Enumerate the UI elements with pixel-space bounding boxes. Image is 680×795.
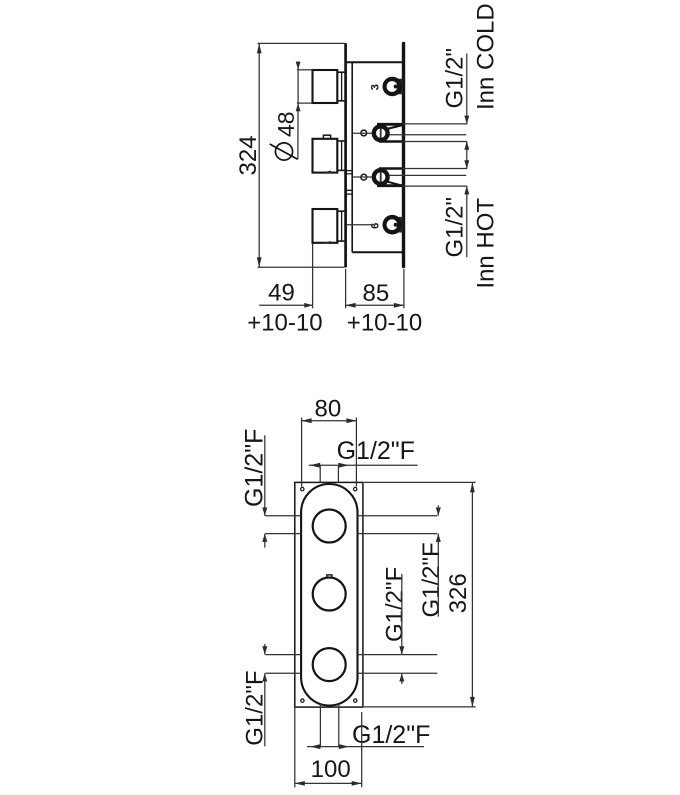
- tolerance text +10-10 left: [247, 309, 322, 336]
- dimension line 324: [257, 43, 262, 267]
- centerline P3: [353, 176, 372, 178]
- port P4 inlet bottom (hot): [383, 215, 403, 235]
- extension line bottom of 324: [258, 266, 345, 268]
- dimension Ø48: extension lines on knob K1: [297, 70, 313, 103]
- knob circle C3: [313, 648, 346, 681]
- label G1/2"F top left with leader: [241, 429, 269, 548]
- dimension text 100: [311, 756, 351, 783]
- svg-text:Inn HOT: Inn HOT: [473, 198, 500, 289]
- svg-text:326: 326: [445, 573, 472, 613]
- port P3 outlet (lower middle): [372, 168, 468, 186]
- dimension text 324: [235, 135, 262, 175]
- pipe stub top: [320, 465, 338, 482]
- knob K3 (bottom handle): [313, 209, 345, 244]
- pipe stub bottom: [320, 704, 338, 747]
- dimension line 326: [470, 482, 475, 707]
- wall cover plate (side view, vertical): [344, 44, 347, 266]
- knob K2 shaft stub through plate: [347, 171, 353, 174]
- pipe stub C1 right: [358, 516, 438, 534]
- dimension 80 extension lines: [302, 418, 357, 487]
- escutcheon obround body: [301, 484, 357, 706]
- small arrow mark on knob K2 bottom edge: [324, 171, 331, 174]
- pipe stub C1 left: [265, 516, 301, 534]
- pin number 6: [370, 223, 382, 229]
- centerline P4: [347, 224, 376, 226]
- small screw hole circle (upper): [361, 130, 367, 136]
- svg-text:G1/2"F: G1/2"F: [352, 721, 430, 749]
- svg-text:85: 85: [363, 280, 390, 307]
- extension line knob front (49): [312, 244, 314, 309]
- svg-text:+10-10: +10-10: [247, 309, 322, 336]
- knob K2 (middle handle with button): [313, 135, 345, 172]
- svg-text:324: 324: [235, 135, 262, 175]
- pipe stub C3 left: [265, 655, 301, 674]
- dimension text 49: [268, 280, 295, 307]
- label G1/2" hot: [442, 197, 469, 258]
- svg-text:Inn COLD: Inn COLD: [473, 3, 500, 110]
- svg-text:G1/2": G1/2": [442, 197, 469, 258]
- G1/2 dimension leaders right side: [464, 54, 469, 258]
- dimension line Ø48 with leader: [296, 61, 301, 159]
- dimension text 85: [363, 280, 390, 307]
- pipe stub C3 right: [358, 655, 438, 674]
- dimension G1/2"F bottom stub: [307, 744, 424, 749]
- port P2 outlet (upper middle): [372, 124, 468, 142]
- dimension line 80: [302, 418, 357, 423]
- svg-text:G1/2"F: G1/2"F: [337, 437, 415, 465]
- wall mounting bar (side view, right vertical): [402, 44, 405, 267]
- screw hole bottom-right: [354, 699, 357, 702]
- mounting tab between plate and body: [347, 190, 353, 194]
- label G1/2"F top center: [337, 437, 415, 465]
- small screw hole circle (lower): [361, 174, 367, 180]
- dimension G1/2"F top stub: [309, 463, 418, 468]
- extension line plate (49/85): [345, 269, 347, 308]
- screw hole bottom-left: [301, 699, 304, 702]
- label Inn COLD: [473, 3, 500, 110]
- svg-text:G1/2": G1/2": [442, 48, 469, 109]
- mounting plate (front view): [295, 482, 363, 707]
- svg-text:3: 3: [370, 84, 382, 90]
- knob K1 (top handle): [313, 70, 345, 103]
- svg-text:G1/2"F: G1/2"F: [381, 567, 408, 642]
- svg-text:G1/2"F: G1/2"F: [418, 542, 445, 617]
- diameter symbol of Ø48: [270, 143, 298, 160]
- extension line top of 324: [258, 42, 345, 44]
- svg-text:100: 100: [311, 756, 351, 783]
- label G1/2"F mid right B with leader to C3 pipe: [381, 567, 408, 684]
- pin number 3: [370, 84, 382, 90]
- label G1/2"F bottom center: [352, 721, 430, 749]
- dimension text 48: [273, 111, 299, 137]
- label G1/2"F mid right A with leader to C1 pipe: [418, 505, 445, 617]
- tolerance text +10-10 right: [347, 309, 422, 336]
- dimension text 80: [315, 396, 342, 423]
- screw hole top-right: [354, 487, 357, 490]
- svg-text:48: 48: [273, 111, 299, 137]
- label Inn HOT: [473, 198, 500, 289]
- svg-text:6: 6: [370, 223, 382, 229]
- svg-text:80: 80: [315, 396, 342, 423]
- dimension line 49: [259, 303, 312, 308]
- valve body (side view): [347, 62, 402, 252]
- knob circle C2: [313, 575, 346, 611]
- port P1 inlet top (cold): [383, 77, 403, 97]
- extension line bar (85): [403, 269, 405, 308]
- label G1/2" cold: [442, 48, 469, 109]
- svg-text:+10-10: +10-10: [347, 309, 422, 336]
- svg-text:49: 49: [268, 280, 295, 307]
- dimension line 100: [295, 781, 362, 786]
- dimension line 85: [346, 303, 404, 308]
- dimension 100 extension lines: [295, 708, 362, 787]
- dimension 326 extension lines: [364, 482, 476, 707]
- label G1/2"F bottom left with leader: [242, 644, 269, 746]
- dimension text 326: [445, 573, 472, 613]
- screw hole top-left: [301, 487, 304, 490]
- centerline P2: [353, 132, 372, 134]
- knob circle C1: [313, 510, 346, 543]
